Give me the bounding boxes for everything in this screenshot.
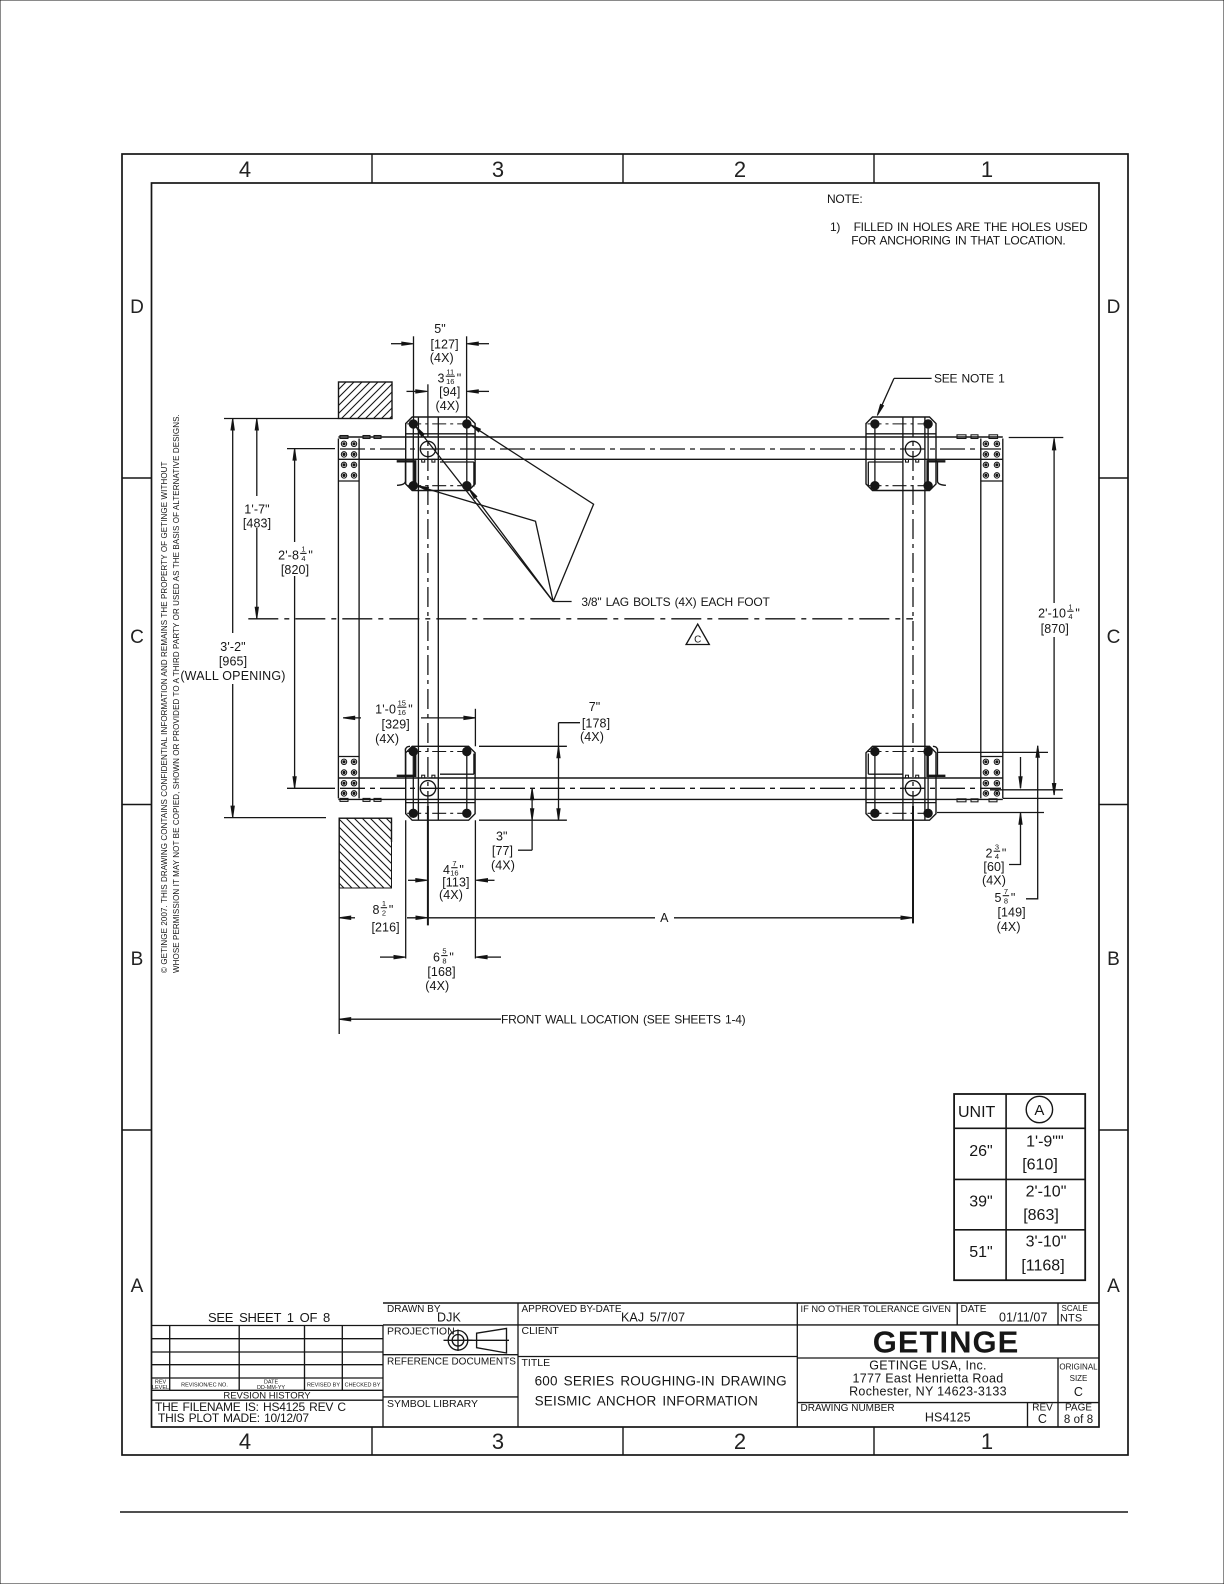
- title block frame: [383, 1302, 1099, 1304]
- left wall angle strip: [337, 439, 339, 799]
- svg-text:SEE SHEET 1 OF 8: SEE SHEET 1 OF 8: [208, 1310, 330, 1325]
- svg-text:C: C: [1038, 1412, 1047, 1426]
- bottom rail: [338, 777, 1002, 779]
- svg-text:[149]: [149]: [997, 906, 1025, 920]
- svg-text:1'-0: 1'-0: [375, 702, 396, 716]
- svg-text:4: 4: [301, 554, 305, 563]
- svg-text:GETINGE USA, Inc.: GETINGE USA, Inc.: [869, 1359, 987, 1373]
- svg-text:C: C: [694, 635, 701, 646]
- dimension 5 7/8 [149]: [1026, 746, 1038, 899]
- svg-text:(4X): (4X): [375, 732, 399, 746]
- dimension 3 11/16 [94]: [407, 390, 418, 392]
- svg-text:3": 3": [496, 829, 508, 843]
- svg-text:NTS: NTS: [1060, 1313, 1082, 1325]
- svg-text:C: C: [1074, 1385, 1083, 1399]
- dimension 5 inch [127]: [391, 343, 404, 345]
- left rail centerline: [427, 384, 429, 417]
- svg-text:SEISMIC ANCHOR INFORMATION: SEISMIC ANCHOR INFORMATION: [535, 1394, 758, 1409]
- svg-text:[820]: [820]: [281, 563, 309, 577]
- left strip screws bottom block: [341, 759, 346, 764]
- svg-text:SIZE: SIZE: [1070, 1374, 1088, 1383]
- leader 3/8 inch lag bolts: [553, 601, 571, 603]
- svg-text:8: 8: [372, 903, 379, 917]
- svg-text:PROJECTION: PROJECTION: [387, 1326, 455, 1338]
- svg-text:4: 4: [239, 1429, 251, 1454]
- svg-text:3'-2": 3'-2": [220, 640, 245, 654]
- svg-text:1: 1: [981, 1429, 993, 1454]
- svg-text:[77]: [77]: [492, 844, 513, 858]
- svg-text:4: 4: [239, 157, 251, 182]
- svg-text:11: 11: [446, 367, 454, 376]
- svg-text:5": 5": [434, 322, 446, 336]
- svg-text:6: 6: [433, 951, 440, 965]
- leg circle bottom-right: [905, 781, 920, 796]
- zone tick marks right: [1099, 477, 1128, 479]
- revision history table: [382, 1326, 384, 1428]
- svg-text:16: 16: [398, 708, 406, 717]
- svg-text:C: C: [1107, 627, 1121, 648]
- svg-text:3: 3: [995, 842, 999, 851]
- svg-text:": ": [457, 371, 462, 385]
- svg-text:600 SERIES ROUGHING-IN DRAWING: 600 SERIES ROUGHING-IN DRAWING: [535, 1374, 787, 1389]
- svg-text:[1168]: [1168]: [1021, 1258, 1064, 1275]
- svg-text:(4X): (4X): [439, 888, 463, 902]
- zone tick marks top: [371, 154, 373, 183]
- svg-text:IF NO OTHER TOLERANCE GIVEN: IF NO OTHER TOLERANCE GIVEN: [801, 1304, 952, 1314]
- svg-text:SYMBOL LIBRARY: SYMBOL LIBRARY: [387, 1398, 478, 1410]
- dimension 4 7/16 [113]: [408, 879, 417, 881]
- svg-text:REFERENCE DOCUMENTS: REFERENCE DOCUMENTS: [387, 1357, 516, 1368]
- outer border frame: [122, 154, 1128, 1455]
- svg-text:": ": [1011, 891, 1016, 905]
- svg-text:REVISED BY: REVISED BY: [307, 1383, 340, 1389]
- dimension 2 3/4 [60]: [937, 751, 1048, 753]
- clip angle top-right: [928, 461, 946, 482]
- svg-text:DRAWING NUMBER: DRAWING NUMBER: [801, 1403, 895, 1414]
- svg-text:B: B: [1107, 949, 1120, 970]
- svg-text:2: 2: [985, 846, 992, 860]
- dimension 2'-10 1/4 [870]: [1009, 437, 1064, 439]
- svg-text:[94]: [94]: [439, 385, 460, 399]
- svg-text:5: 5: [442, 947, 446, 956]
- right rail centerline: [912, 417, 914, 820]
- right wall angle strip: [980, 439, 982, 799]
- svg-text:[483]: [483]: [243, 517, 271, 531]
- svg-text:1'-7": 1'-7": [244, 503, 269, 517]
- svg-text:D: D: [130, 297, 144, 318]
- svg-text:DJK: DJK: [437, 1311, 461, 1325]
- svg-text:Rochester, NY 14623-3133: Rochester, NY 14623-3133: [849, 1385, 1007, 1399]
- dimension 2'-8 1/4 [820]: [287, 448, 335, 450]
- svg-text:[870]: [870]: [1041, 622, 1069, 636]
- svg-text:A: A: [660, 911, 669, 925]
- svg-text:A: A: [131, 1276, 144, 1297]
- inner border frame: [152, 183, 1100, 1427]
- svg-text:3: 3: [437, 371, 444, 385]
- svg-text:2'-10: 2'-10: [1038, 606, 1066, 620]
- svg-text:": ": [1002, 846, 1007, 860]
- extension line wall opening bottom: [224, 817, 326, 819]
- svg-text:4: 4: [1068, 612, 1072, 621]
- svg-text:KAJ 5/7/07: KAJ 5/7/07: [621, 1311, 685, 1325]
- left vertical rail: [417, 417, 419, 820]
- svg-text:[965]: [965]: [219, 655, 247, 669]
- svg-text:(WALL OPENING): (WALL OPENING): [180, 669, 285, 683]
- svg-text:FILLED IN HOLES ARE THE HOLES: FILLED IN HOLES ARE THE HOLES USED: [854, 220, 1088, 234]
- svg-text:D: D: [1107, 297, 1121, 318]
- svg-text:": ": [449, 951, 454, 965]
- svg-text:(4X): (4X): [435, 399, 459, 413]
- dimension 1'-7 [483]: [256, 419, 258, 497]
- svg-text:15: 15: [398, 698, 406, 707]
- svg-text:8 of 8: 8 of 8: [1064, 1414, 1093, 1426]
- dimension 6 5/8 [168]: [380, 956, 395, 958]
- svg-text:1777 East Henrietta Road: 1777 East Henrietta Road: [852, 1372, 1003, 1386]
- svg-text:5: 5: [994, 891, 1001, 905]
- svg-text:HS4125: HS4125: [925, 1411, 971, 1425]
- svg-text:A: A: [1107, 1276, 1120, 1297]
- extension lines above top-left foot: [413, 336, 415, 422]
- svg-text:WHOSE PERMISSION IT MAY NOT BE: WHOSE PERMISSION IT MAY NOT BE COPIED, S…: [172, 414, 181, 973]
- dimension 1'-0 15/16 [329]: [343, 717, 361, 719]
- dimension 3'-2 wall opening: [232, 419, 234, 634]
- svg-text:7: 7: [1004, 887, 1008, 896]
- lag bolt holes (filled) bottom-left: [409, 747, 417, 755]
- anchor foot plate bottom-left: [406, 746, 475, 820]
- svg-text:GETINGE: GETINGE: [873, 1325, 1020, 1360]
- svg-text:UNIT: UNIT: [958, 1104, 996, 1121]
- svg-text:": ": [308, 549, 313, 563]
- svg-text:APPROVED BY-DATE: APPROVED BY-DATE: [522, 1304, 622, 1315]
- front wall location leader: [339, 1018, 501, 1020]
- front wall edge line: [338, 888, 340, 1034]
- lag bolt holes (filled) bottom-right: [871, 747, 879, 755]
- svg-text:© GETINGE 2007. THIS DRAWING C: © GETINGE 2007. THIS DRAWING CONTAINS CO…: [160, 461, 169, 973]
- mounting tabs: [340, 436, 348, 439]
- svg-text:01/11/07: 01/11/07: [999, 1311, 1048, 1325]
- svg-text:B: B: [131, 949, 144, 970]
- svg-text:[863]: [863]: [1023, 1207, 1059, 1224]
- svg-text:7": 7": [589, 700, 601, 714]
- svg-text:": ": [1075, 606, 1080, 620]
- svg-text:1: 1: [382, 899, 386, 908]
- bottom rail centerline: [340, 787, 1001, 789]
- top rail centerline: [340, 448, 1001, 450]
- lag bolt holes (filled) top-right: [871, 420, 879, 428]
- svg-text:2'-10": 2'-10": [1026, 1184, 1067, 1201]
- svg-text:LEVEL: LEVEL: [152, 1385, 169, 1391]
- leg circle top-right: [905, 441, 920, 456]
- svg-text:2: 2: [734, 1429, 746, 1454]
- svg-text:7: 7: [452, 859, 456, 868]
- footer rule line: [120, 1511, 1128, 1513]
- extension lines below bottom-left foot: [405, 820, 407, 958]
- right strip screws top block: [983, 441, 988, 446]
- svg-text:2: 2: [382, 908, 386, 917]
- anchor foot plate top-right: [866, 417, 936, 491]
- svg-text:PAGE: PAGE: [1065, 1403, 1092, 1414]
- svg-text:[329]: [329]: [382, 718, 410, 732]
- svg-text:THIS PLOT MADE: 10/12/07: THIS PLOT MADE: 10/12/07: [158, 1411, 309, 1425]
- top rail: [338, 436, 1002, 438]
- clip angle bottom-right: [928, 754, 946, 776]
- svg-text:2'-8: 2'-8: [278, 549, 299, 563]
- svg-text:TITLE: TITLE: [522, 1357, 551, 1369]
- anchor foot plate top-left: [406, 417, 475, 491]
- svg-text:FOR ANCHORING IN THAT LOCATION: FOR ANCHORING IN THAT LOCATION.: [851, 234, 1065, 248]
- clip angle top-left: [397, 461, 416, 482]
- zone tick marks bottom: [371, 1427, 373, 1455]
- svg-text:1: 1: [981, 157, 993, 182]
- svg-text:FRONT WALL LOCATION (SEE SHEET: FRONT WALL LOCATION (SEE SHEETS 1-4): [501, 1013, 746, 1027]
- svg-text:3: 3: [492, 157, 504, 182]
- svg-text:1): 1): [830, 220, 840, 234]
- dimension 8 1/2 [216] and A line: [339, 917, 355, 919]
- svg-text:51": 51": [969, 1244, 992, 1261]
- svg-text:26": 26": [969, 1143, 992, 1160]
- svg-text:3/8" LAG BOLTS (4X) EACH FOOT: 3/8" LAG BOLTS (4X) EACH FOOT: [581, 595, 770, 609]
- svg-text:SEE NOTE 1: SEE NOTE 1: [934, 372, 1005, 386]
- svg-text:": ": [389, 903, 394, 917]
- svg-text:DRAWN BY: DRAWN BY: [387, 1304, 441, 1315]
- svg-text:(4X): (4X): [425, 979, 449, 993]
- revision flag triangle C: [686, 624, 709, 644]
- clip angle bottom-left: [397, 754, 416, 776]
- svg-text:CHECKED BY: CHECKED BY: [345, 1383, 381, 1389]
- svg-text:(4X): (4X): [982, 874, 1006, 888]
- unit table: [954, 1094, 1085, 1280]
- svg-text:REVISION/EC NO.: REVISION/EC NO.: [181, 1383, 228, 1389]
- svg-text:[60]: [60]: [983, 860, 1004, 874]
- dimension 3 inch [77]: [531, 788, 533, 850]
- svg-text:[178]: [178]: [582, 716, 610, 730]
- svg-text:NOTE:: NOTE:: [827, 192, 862, 206]
- svg-text:(4X): (4X): [997, 920, 1021, 934]
- svg-text:ORIGINAL: ORIGINAL: [1059, 1363, 1098, 1372]
- svg-text:DATE: DATE: [961, 1304, 987, 1315]
- svg-text:(4X): (4X): [491, 859, 515, 873]
- svg-text:39": 39": [969, 1194, 992, 1211]
- svg-text:1: 1: [1068, 602, 1072, 611]
- wall opening centerline: [248, 618, 913, 620]
- extension line wall opening top: [224, 418, 338, 420]
- svg-text:3'-10": 3'-10": [1026, 1234, 1067, 1251]
- leg circle bottom-left: [420, 781, 435, 796]
- right strip screws bottom block: [983, 759, 988, 764]
- svg-text:8: 8: [1004, 896, 1008, 905]
- svg-text:CLIENT: CLIENT: [522, 1325, 560, 1337]
- svg-text:1: 1: [301, 545, 305, 554]
- lag bolt holes (filled) top-left: [409, 420, 417, 428]
- svg-text:(4X): (4X): [430, 351, 454, 365]
- svg-text:A: A: [1034, 1102, 1044, 1119]
- right vertical rail: [902, 417, 904, 820]
- dimension 7 inch [178]: [479, 745, 567, 747]
- hatched wall section bottom-left: [339, 818, 391, 888]
- svg-text:[168]: [168]: [427, 965, 455, 979]
- svg-text:2: 2: [734, 157, 746, 182]
- svg-text:1'-9"": 1'-9"": [1026, 1134, 1064, 1151]
- hatched wall section top-left: [339, 382, 393, 419]
- svg-text:3: 3: [492, 1429, 504, 1454]
- left strip screws top block: [341, 441, 346, 446]
- svg-text:[610]: [610]: [1022, 1157, 1058, 1174]
- svg-text:C: C: [130, 627, 144, 648]
- svg-text:[216]: [216]: [371, 920, 399, 934]
- anchor foot plate bottom-right: [866, 746, 936, 820]
- svg-text:": ": [408, 702, 413, 716]
- zone tick marks left: [122, 477, 152, 479]
- leg circle top-left: [420, 441, 435, 456]
- svg-text:(4X): (4X): [580, 730, 604, 744]
- leader SEE NOTE 1: [894, 377, 932, 379]
- svg-text:[127]: [127]: [430, 337, 458, 351]
- rail notches: [422, 459, 425, 462]
